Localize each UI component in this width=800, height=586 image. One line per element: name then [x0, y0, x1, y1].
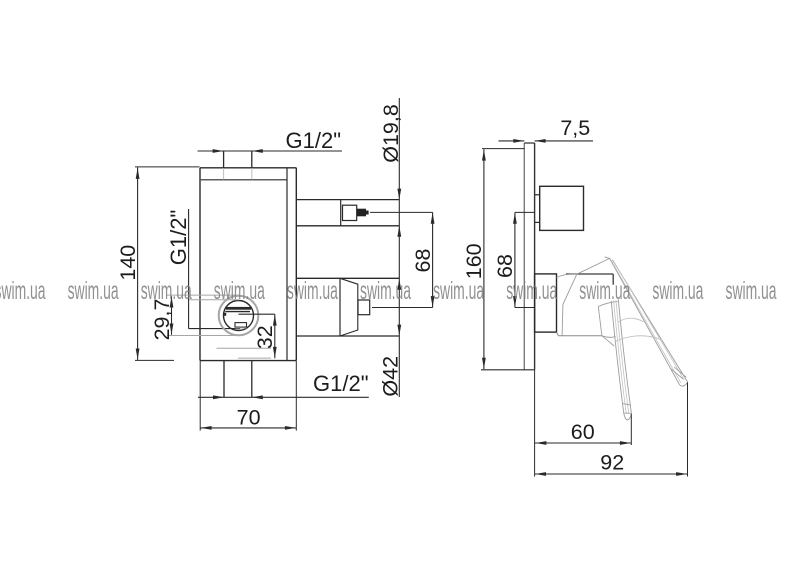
svg-text:swim.ua: swim.ua	[433, 277, 484, 305]
body inner top edge	[201, 179, 287, 181]
hidden lines bottom port	[217, 348, 272, 358]
svg-text:swim.ua: swim.ua	[360, 277, 411, 305]
dimension 92	[535, 370, 688, 477]
port circle outer ring	[219, 296, 259, 336]
dimension 68 right view	[493, 212, 535, 307]
tangent construction lines	[167, 295, 240, 335]
svg-text:7,5: 7,5	[560, 116, 590, 140]
port circle inner bars	[224, 307, 251, 328]
svg-text:G1/2": G1/2"	[286, 128, 342, 153]
right view: dimension 7,5	[499, 116, 594, 143]
lever swing arcs	[615, 318, 663, 342]
top inlet port G1/2	[224, 151, 252, 180]
svg-text:swim.ua: swim.ua	[579, 277, 630, 305]
svg-text:swim.ua: swim.ua	[68, 277, 119, 305]
port circle inner ring	[224, 301, 254, 331]
diameter dimension column	[379, 98, 404, 397]
svg-text:Ø19,8: Ø19,8	[379, 104, 403, 163]
svg-text:70: 70	[237, 406, 261, 430]
dimension 29,7	[150, 296, 174, 340]
svg-text:swim.ua: swim.ua	[0, 277, 46, 305]
dimension 68 left view	[370, 212, 435, 307]
svg-text:160: 160	[462, 243, 486, 279]
wall plate	[481, 143, 535, 370]
dimension 160	[462, 149, 524, 370]
cartridge housing	[535, 274, 557, 332]
watermark row	[0, 277, 777, 305]
svg-text:140: 140	[116, 245, 140, 281]
lever arm lower position	[598, 299, 631, 420]
svg-text:swim.ua: swim.ua	[287, 277, 338, 305]
dimension 60	[535, 414, 631, 445]
svg-text:32: 32	[253, 325, 277, 349]
svg-text:68: 68	[493, 254, 517, 278]
svg-text:92: 92	[600, 450, 624, 474]
lower spout outlet	[296, 278, 399, 336]
svg-text:swim.ua: swim.ua	[652, 277, 703, 305]
top shower outlet	[296, 200, 399, 226]
dimension 140	[116, 167, 200, 361]
svg-text:swim.ua: swim.ua	[214, 277, 265, 305]
handle cap dark edge	[566, 274, 613, 285]
diverter knob	[535, 186, 584, 230]
lever handle body	[557, 257, 618, 338]
svg-text:60: 60	[571, 420, 595, 444]
svg-text:68: 68	[411, 249, 435, 273]
svg-text:swim.ua: swim.ua	[726, 277, 777, 305]
dimension G1/2 top	[198, 128, 343, 153]
body inner right edge	[286, 168, 288, 360]
bottom outlet port	[224, 361, 252, 397]
dimension 32	[239, 314, 278, 358]
label G1/2 left with leader	[166, 209, 240, 329]
dimension 70	[200, 361, 296, 431]
left view: mixer body outline	[200, 168, 296, 361]
dimension G1/2 bottom	[198, 371, 369, 399]
lever arm upper position	[610, 258, 688, 386]
svg-text:Ø42: Ø42	[379, 356, 403, 397]
svg-text:swim.ua: swim.ua	[506, 277, 557, 305]
svg-text:G1/2": G1/2"	[313, 371, 369, 396]
svg-text:G1/2": G1/2"	[166, 210, 191, 266]
svg-text:swim.ua: swim.ua	[141, 277, 192, 305]
